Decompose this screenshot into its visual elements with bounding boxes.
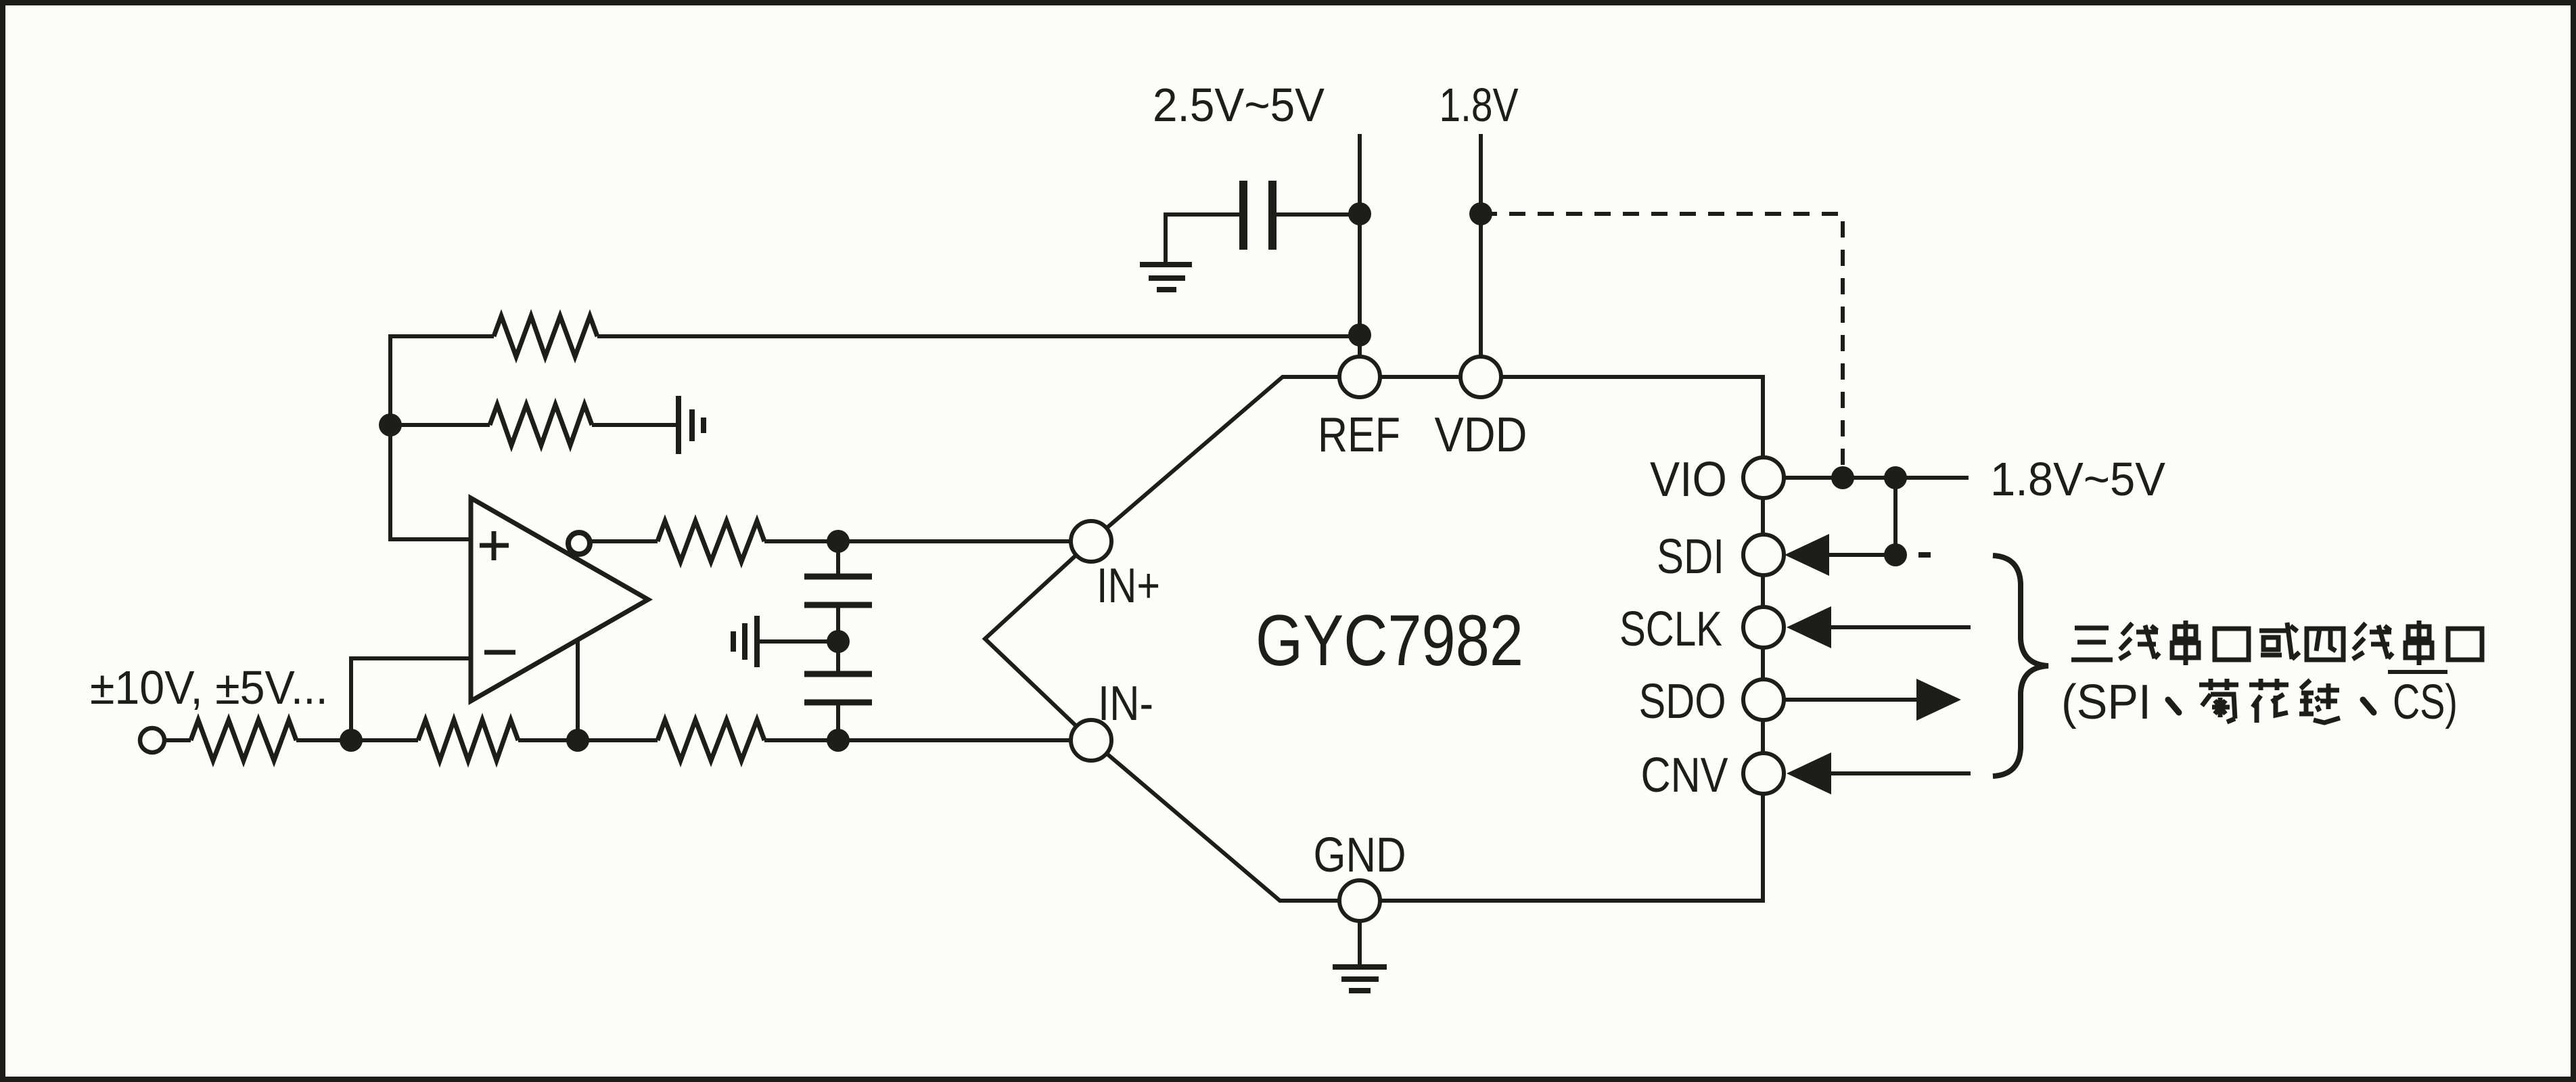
wire top-left corner down to op-amp + input	[390, 336, 494, 539]
resistor R6 (node C to IN-)	[658, 720, 764, 761]
ground (rotated left, mid)	[733, 616, 757, 667]
glyph 或	[2259, 623, 2299, 659]
wire SDI arrow line	[1826, 553, 1895, 557]
wire top feedback long horizontal to REF node	[597, 334, 1360, 338]
pin IN+	[1071, 521, 1111, 562]
pin REF	[1339, 357, 1380, 397]
op-amp - symbol	[484, 650, 515, 655]
svg-text:2.5V~5V: 2.5V~5V	[1153, 78, 1325, 131]
svg-text:CS): CS)	[2393, 675, 2458, 729]
pin CNV	[1743, 753, 1784, 794]
ground (top left of C3)	[1140, 265, 1192, 290]
junction VIO right	[1884, 466, 1907, 489]
op-amp output circle	[568, 533, 590, 554]
wire VIO to 1.8V~5V	[1784, 476, 1969, 480]
wire 1.8V supply stem	[1479, 134, 1483, 357]
wire dashed 1.8V to VIO	[1481, 214, 1843, 472]
arrow into SDI	[1785, 534, 1829, 576]
svg-text:CNV: CNV	[1641, 748, 1728, 803]
pin GND	[1339, 880, 1380, 921]
pin VIO	[1743, 457, 1784, 498]
arrow into CNV	[1787, 752, 1831, 794]
resistor R3 (to IN+)	[658, 521, 764, 562]
junction IN+ line	[827, 530, 850, 553]
wire op-amp output to resistor R3	[590, 539, 658, 543]
wire R2 to ground symbol	[592, 423, 678, 427]
junction VIO dashed	[1831, 466, 1854, 489]
text 、菊花链、 in line 2	[2168, 679, 2374, 723]
arrow into SCLK	[1787, 606, 1831, 648]
wire SDO line	[1784, 698, 1920, 702]
junction 1.8V node	[1469, 202, 1492, 225]
junction C3 node	[1348, 202, 1371, 225]
glyph 三	[2071, 628, 2113, 660]
wire R5 to node C	[518, 738, 658, 742]
op-amp U1	[471, 498, 648, 701]
junction IN- line	[827, 729, 850, 752]
wire 2.5V supply stem	[1358, 134, 1362, 357]
dash mark right of SDI node	[1918, 552, 1931, 558]
glyph 口	[2215, 629, 2249, 660]
text 三线串口或四线串口	[2071, 621, 2482, 665]
wire terminal to resistor R4	[164, 738, 191, 742]
svg-text:(SPI: (SPI	[2061, 675, 2151, 729]
brace	[1993, 556, 2048, 776]
svg-text:GYC7982: GYC7982	[1256, 600, 1523, 681]
junction node C	[566, 729, 589, 752]
glyph 串	[2172, 621, 2199, 665]
svg-text:SDO: SDO	[1639, 675, 1726, 729]
svg-text:±10V, ±5V...: ±10V, ±5V...	[90, 661, 328, 714]
wire node B up to op-amp - input	[351, 658, 471, 740]
capacitor C1 plates	[804, 577, 872, 605]
wire R3 to IN+ pin	[764, 539, 1071, 543]
pin VDD	[1460, 357, 1501, 397]
wire between capacitors	[836, 605, 840, 674]
wire VIO node down to SDI node	[1893, 478, 1897, 555]
svg-text:VDD: VDD	[1435, 408, 1527, 462]
resistor R1 (feedback to REF)	[494, 316, 597, 357]
svg-text:GND: GND	[1314, 828, 1406, 882]
capacitor C3 plates	[1243, 181, 1272, 250]
resistor R2 (to ground)	[490, 405, 592, 445]
pin SDI	[1743, 535, 1784, 575]
pin IN-	[1071, 720, 1111, 761]
glyph 菊	[2199, 679, 2238, 722]
wire C3 right plate to supply stem	[1276, 212, 1360, 217]
svg-text:VIO: VIO	[1650, 453, 1727, 507]
wire R4 to node B	[296, 738, 418, 742]
wire C2 to IN- line	[836, 702, 840, 740]
resistor R5 (node B to node C)	[418, 720, 518, 761]
resistor R4 (input)	[191, 720, 296, 761]
glyph 串	[2406, 621, 2432, 665]
svg-text:SDI: SDI	[1657, 530, 1724, 584]
wire R6 to IN- pin	[764, 738, 1071, 742]
junction node A	[379, 413, 402, 436]
wire CNV arrow line	[1828, 771, 1971, 775]
glyph 线	[2119, 623, 2159, 659]
wire cap chain vertical between IN+ and IN- lines	[836, 541, 840, 577]
glyph 花	[2249, 679, 2288, 723]
svg-text:1.8V: 1.8V	[1440, 78, 1519, 131]
svg-text:1.8V~5V: 1.8V~5V	[1990, 453, 2165, 505]
arrow out of SDO	[1916, 679, 1961, 721]
wire mid ground to cap node	[757, 639, 838, 644]
glyph 链	[2299, 680, 2340, 723]
svg-text:SCLK: SCLK	[1619, 602, 1722, 656]
glyph 、	[2168, 700, 2179, 713]
wire feedback from op-amp bottom edge down to node C	[576, 639, 580, 740]
op-amp + symbol	[480, 531, 509, 560]
glyph 、	[2363, 700, 2374, 713]
wire GND stem	[1358, 921, 1362, 967]
wire node A to resistor R2	[390, 423, 490, 427]
glyph 四	[2307, 629, 2343, 660]
glyph 线	[2353, 623, 2393, 659]
pin SDO	[1743, 679, 1784, 720]
wire SCLK arrow line	[1828, 625, 1971, 629]
pin SCLK	[1743, 607, 1784, 648]
junction SDI node	[1884, 543, 1907, 566]
svg-text:IN+: IN+	[1097, 559, 1160, 613]
chip GYC7982 outline	[985, 377, 1763, 901]
glyph 口	[2448, 629, 2482, 660]
input terminal circle	[140, 728, 164, 752]
overline of CS	[2388, 670, 2447, 674]
junction cap mid	[827, 630, 850, 653]
wire C3 left plate to ground	[1166, 215, 1239, 265]
ground (rotated right, after R2)	[678, 396, 704, 454]
junction REF node	[1348, 323, 1371, 346]
svg-text:REF: REF	[1318, 408, 1400, 462]
svg-text:IN-: IN-	[1098, 677, 1153, 731]
capacitor C2 plates	[804, 674, 872, 702]
junction node B	[340, 729, 363, 752]
ground (below GND pin)	[1333, 967, 1387, 991]
